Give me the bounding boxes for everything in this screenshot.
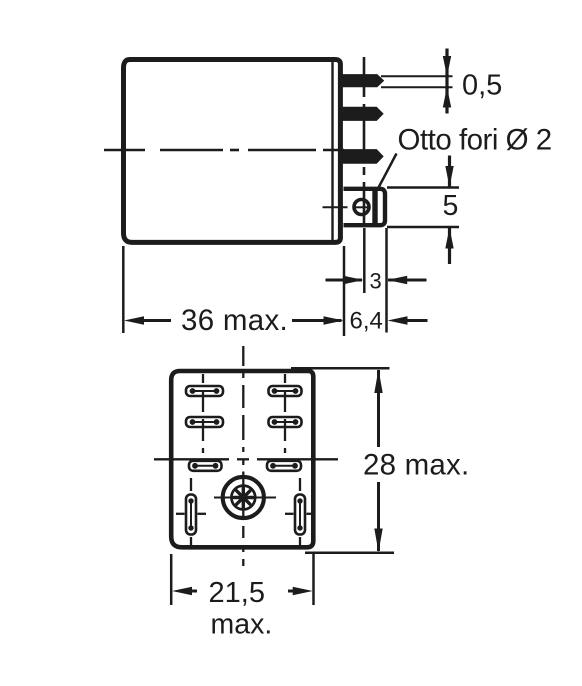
svg-text:36 max.: 36 max. bbox=[181, 304, 288, 337]
bottom slot left bbox=[186, 495, 196, 535]
column centerline right bbox=[284, 374, 286, 453]
bottom slot right bbox=[295, 495, 305, 535]
svg-text:6,4: 6,4 bbox=[350, 307, 383, 334]
horizontal centerline bottom view bbox=[154, 458, 338, 460]
extension line pin plane bbox=[363, 228, 366, 293]
bottom slot right centerline bbox=[299, 478, 301, 545]
bottom slot left centerline bbox=[190, 478, 192, 545]
extension line body right edge bbox=[343, 246, 346, 336]
dim 6,4 right arrow bbox=[388, 316, 408, 324]
tab bar bbox=[372, 188, 377, 226]
bottom view body bbox=[171, 371, 313, 547]
pin slot row3 left bbox=[189, 461, 222, 471]
center keying hole bbox=[223, 477, 264, 518]
svg-text:5: 5 bbox=[443, 190, 459, 222]
dim 36 max extension left bbox=[122, 246, 125, 333]
svg-text:21,5: 21,5 bbox=[209, 577, 265, 609]
dim 28 max line+arrows bbox=[377, 370, 380, 447]
svg-text:Otto fori Ø 2: Otto fori Ø 2 bbox=[398, 124, 552, 157]
pin slot row2 right bbox=[269, 417, 302, 427]
svg-text:0,5: 0,5 bbox=[462, 70, 502, 102]
dim 21,5 extension lines bbox=[170, 554, 173, 605]
body horizontal centerline bbox=[104, 149, 344, 152]
relay body (side view) bbox=[124, 60, 341, 243]
pin slot row2 left bbox=[186, 417, 223, 427]
dim 21,5 arrows bbox=[172, 587, 192, 595]
pin centerline (dash-dot vertical) bbox=[363, 57, 366, 227]
dim 36 max line bbox=[124, 316, 144, 324]
pin slot row3 right bbox=[267, 461, 301, 471]
dim 0,5 arrows bbox=[445, 49, 448, 76]
dim 5 extension lines bbox=[387, 186, 459, 189]
pin slot row1 left bbox=[186, 386, 223, 396]
pin 1 bbox=[343, 75, 384, 87]
dim 5 arrows bbox=[448, 156, 451, 187]
hole crosshair horizontal bbox=[214, 497, 276, 499]
body inner seam line bbox=[331, 62, 333, 240]
pin 3 bbox=[343, 150, 383, 164]
vertical centerline bottom view bbox=[242, 346, 244, 566]
pin 2 bbox=[343, 107, 383, 120]
column centerline left bbox=[202, 374, 204, 453]
bottom slot side ticks bbox=[176, 513, 315, 515]
svg-text:28 max.: 28 max. bbox=[363, 449, 469, 482]
mounting tab bbox=[344, 189, 386, 225]
dim 28 max extension lines bbox=[291, 367, 390, 370]
tab hole bbox=[354, 200, 369, 215]
leader line Otto fori bbox=[378, 154, 397, 190]
keying star bbox=[234, 488, 253, 507]
svg-text:3: 3 bbox=[370, 269, 382, 294]
pin slot row1 right bbox=[269, 386, 302, 396]
tab hole centerline bbox=[323, 206, 348, 208]
dim 3 bbox=[326, 279, 363, 282]
extension line tab edge bbox=[385, 228, 388, 333]
pin thickness extension lines bbox=[381, 75, 453, 77]
svg-text:max.: max. bbox=[211, 609, 273, 641]
